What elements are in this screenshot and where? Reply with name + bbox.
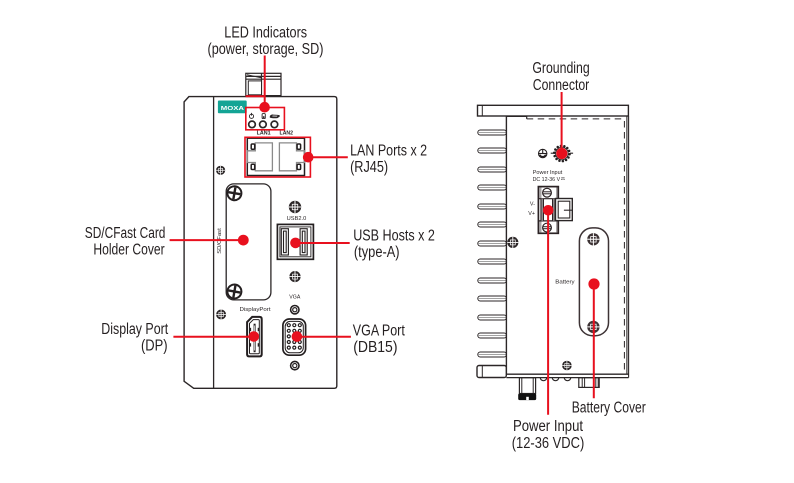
svg-text:LED Indicators: LED Indicators (224, 25, 307, 42)
svg-text:VGA Port: VGA Port (353, 322, 406, 339)
svg-text:SD/CFast Card: SD/CFast Card (85, 225, 166, 242)
svg-text:Connector: Connector (533, 77, 590, 94)
svg-text:Grounding: Grounding (532, 60, 589, 77)
svg-text:USB Hosts x 2: USB Hosts x 2 (353, 228, 435, 245)
svg-text:V-: V- (530, 201, 535, 207)
svg-text:(power, storage, SD): (power, storage, SD) (208, 41, 324, 58)
svg-text:MOXA: MOXA (221, 106, 245, 112)
svg-text:Holder Cover: Holder Cover (93, 241, 164, 258)
svg-text:USB2.0: USB2.0 (287, 216, 307, 222)
svg-text:Power Input: Power Input (533, 170, 563, 176)
svg-text:LAN2: LAN2 (280, 130, 294, 136)
svg-text:DisplayPort: DisplayPort (240, 307, 272, 313)
svg-text:(12-36 VDC): (12-36 VDC) (512, 435, 585, 452)
svg-text:Display Port: Display Port (101, 321, 168, 338)
svg-text:LAN1: LAN1 (257, 130, 271, 136)
svg-text:(RJ45): (RJ45) (350, 159, 388, 176)
svg-text:(DB15): (DB15) (353, 339, 397, 356)
svg-text:DC 12-36 V: DC 12-36 V (533, 177, 561, 183)
svg-text:VGA: VGA (289, 294, 300, 300)
svg-text:Battery Cover: Battery Cover (572, 400, 646, 417)
svg-text:(type-A): (type-A) (354, 244, 400, 261)
svg-text:V+: V+ (528, 211, 535, 217)
svg-text:LAN Ports x 2: LAN Ports x 2 (350, 142, 427, 159)
svg-text:Battery: Battery (555, 280, 575, 286)
svg-text:Power Input: Power Input (513, 418, 584, 435)
svg-text:(DP): (DP) (141, 337, 168, 354)
